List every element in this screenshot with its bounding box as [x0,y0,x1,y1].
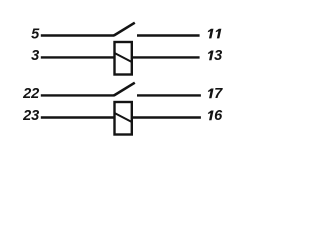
svg-text:3: 3 [31,48,39,64]
svg-text:5: 5 [31,26,40,42]
svg-text:22: 22 [22,86,39,102]
svg-text:6: 6 [214,108,223,124]
svg-text:23: 23 [22,108,39,124]
svg-text:7: 7 [214,86,223,102]
svg-text:3: 3 [214,48,222,64]
